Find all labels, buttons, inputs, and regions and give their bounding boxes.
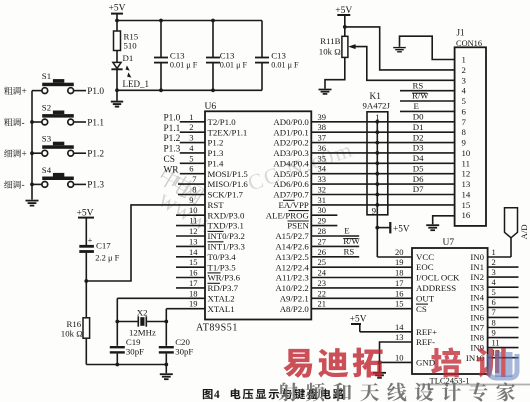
svg-text:P1.0: P1.0 bbox=[164, 113, 181, 123]
svg-text:D4: D4 bbox=[413, 153, 424, 163]
wire U7 IN2 (pin 3) bbox=[488, 267, 519, 277]
wire U6 pin 14 bbox=[176, 247, 205, 257]
caption 图4 bbox=[203, 389, 213, 399]
wire U6 pin 11 bbox=[176, 216, 205, 226]
svg-text:CS: CS bbox=[416, 304, 427, 314]
wire D4 bus: U6 pin 35 to J1 pin 11 bbox=[311, 153, 454, 165]
svg-text:XTAL2: XTAL2 bbox=[208, 293, 235, 303]
svg-text:T1/P3.5: T1/P3.5 bbox=[208, 262, 237, 272]
svg-text:18: 18 bbox=[395, 268, 404, 278]
svg-text:4: 4 bbox=[214, 389, 220, 401]
svg-text:13: 13 bbox=[189, 236, 198, 246]
svg-text:WR: WR bbox=[164, 165, 180, 175]
svg-text:AD2/P0.2: AD2/P0.2 bbox=[273, 138, 308, 148]
svg-text:RST: RST bbox=[208, 200, 225, 210]
capacitor C17 2.2uF (electrolytic) bbox=[79, 235, 119, 281]
power +5V (top-left) bbox=[109, 4, 126, 21]
svg-text:15: 15 bbox=[462, 200, 471, 210]
svg-text:D2: D2 bbox=[413, 132, 424, 142]
wire U6 pin 9 RST to C17/R16 node bbox=[86, 195, 205, 281]
connector J1 CON16 bbox=[455, 28, 486, 226]
svg-text:A11/P2.3: A11/P2.3 bbox=[276, 273, 310, 283]
potentiometer R11B 10k bbox=[319, 36, 348, 57]
capacitor C19 30pF bbox=[110, 337, 144, 364]
wire U6 pin 10 bbox=[176, 205, 205, 215]
wire D3 bus: U6 pin 36 to J1 pin 10 bbox=[311, 143, 454, 155]
svg-text:EOC: EOC bbox=[416, 262, 434, 272]
wire U6 pin 19 XTAL1 bbox=[166, 299, 205, 309]
svg-text:26: 26 bbox=[318, 247, 327, 257]
svg-text:P1.3: P1.3 bbox=[208, 148, 224, 158]
svg-text:16: 16 bbox=[189, 268, 198, 278]
svg-text:REF+: REF+ bbox=[416, 327, 437, 337]
svg-text:RS: RS bbox=[413, 80, 424, 90]
ground (switch bus) bbox=[26, 201, 39, 206]
wire J1 pin 3 to R11B wiper bbox=[348, 44, 454, 80]
svg-text:R/W: R/W bbox=[412, 91, 429, 101]
svg-text:+: + bbox=[22, 150, 27, 160]
power +5V (K1 common) bbox=[375, 222, 409, 234]
svg-text:X2: X2 bbox=[137, 307, 148, 317]
wire U6 pin 18 XTAL2 bbox=[117, 288, 205, 298]
svg-text:TXD/P3.1: TXD/P3.1 bbox=[208, 221, 244, 231]
svg-text:14: 14 bbox=[189, 247, 198, 257]
svg-text:7: 7 bbox=[462, 117, 467, 127]
svg-text:8: 8 bbox=[492, 317, 496, 327]
svg-text:INT0/P3.2: INT0/P3.2 bbox=[208, 231, 245, 241]
op-amp/mcu U6 AT89S51 box bbox=[196, 102, 311, 334]
wire J1 pin 6 (E) bbox=[400, 101, 455, 111]
wire XTAL2 branch bbox=[115, 298, 119, 346]
wire U6 pin 12 bbox=[176, 226, 205, 236]
wire crystal ground bus bbox=[86, 363, 168, 367]
wire U6 pin 13 bbox=[176, 236, 205, 246]
svg-text:IN3: IN3 bbox=[470, 282, 484, 292]
svg-text:7: 7 bbox=[192, 174, 196, 184]
svg-text:3: 3 bbox=[492, 267, 496, 277]
capacitor C20 30pF bbox=[159, 337, 194, 364]
svg-text:AT89S51: AT89S51 bbox=[196, 323, 238, 334]
wire switch bus bbox=[30, 91, 34, 200]
svg-text:AD6/P0.6: AD6/P0.6 bbox=[273, 179, 309, 189]
svg-text:D1: D1 bbox=[123, 53, 134, 63]
svg-text:IN8: IN8 bbox=[470, 333, 484, 343]
svg-text:RXD/P3.0: RXD/P3.0 bbox=[208, 210, 246, 220]
svg-text:9: 9 bbox=[462, 138, 467, 148]
svg-text:32: 32 bbox=[318, 185, 327, 195]
capacitor C13 #3 bbox=[255, 21, 299, 91]
svg-text:6: 6 bbox=[462, 106, 467, 116]
capacitor C13 #1 bbox=[154, 21, 198, 91]
wire U7 pin 13 REF- bbox=[380, 332, 413, 362]
svg-text:21: 21 bbox=[318, 299, 327, 309]
svg-text:P1.3: P1.3 bbox=[164, 145, 181, 155]
svg-text:+5V: +5V bbox=[109, 4, 126, 14]
svg-text:S3: S3 bbox=[42, 134, 52, 144]
svg-text:D1: D1 bbox=[413, 122, 424, 132]
svg-text:AD4/P0.4: AD4/P0.4 bbox=[273, 158, 309, 168]
svg-text:1: 1 bbox=[462, 55, 466, 65]
svg-text:ALE/PROG: ALE/PROG bbox=[266, 210, 310, 220]
wire U7 IN0 (pin 1) bbox=[488, 247, 511, 257]
svg-text:10k Ω: 10k Ω bbox=[61, 329, 83, 339]
U6 inner pin names bbox=[208, 117, 310, 314]
wire U6 pin 21 to U7 pin 15 bbox=[311, 299, 412, 309]
svg-text:19: 19 bbox=[189, 299, 198, 309]
wire U6 pin 25 to U7 pin 19 bbox=[311, 257, 412, 267]
wire U7 pin 14 REF+ bbox=[360, 322, 412, 332]
svg-text:R11B: R11B bbox=[320, 36, 340, 46]
svg-text:9: 9 bbox=[372, 205, 377, 215]
svg-text:I/OCL OCK: I/OCL OCK bbox=[416, 273, 460, 283]
svg-text:IN0: IN0 bbox=[470, 252, 484, 262]
svg-text:P1.0: P1.0 bbox=[87, 87, 104, 97]
svg-text:5: 5 bbox=[492, 287, 496, 297]
svg-text:6: 6 bbox=[189, 164, 193, 174]
svg-text:14: 14 bbox=[395, 322, 404, 332]
watermark diagonal 中电网 bbox=[155, 136, 357, 237]
wire D1 bus: U6 pin 38 to J1 pin 8 bbox=[311, 122, 454, 134]
wire U6 pin 16 bbox=[176, 268, 205, 278]
svg-text:IN2: IN2 bbox=[470, 272, 484, 282]
svg-text:REF-: REF- bbox=[416, 337, 435, 347]
svg-text:MOSI/P1.5: MOSI/P1.5 bbox=[208, 169, 249, 179]
svg-text:28: 28 bbox=[318, 226, 327, 236]
svg-text:16: 16 bbox=[462, 210, 471, 220]
wire U7 IN6 (pin 7) bbox=[488, 307, 519, 317]
wire U6 pin 29 stub bbox=[311, 216, 337, 226]
wire U6 pin 3 (P1.2) bbox=[164, 133, 206, 145]
svg-text:25: 25 bbox=[318, 257, 327, 267]
svg-text:A15/P2.7: A15/P2.7 bbox=[275, 231, 309, 241]
svg-text:+: + bbox=[88, 235, 93, 245]
wire U6 pin 17 bbox=[176, 278, 205, 288]
wire D7 bus: U6 pin 32 to J1 pin 14 bbox=[311, 184, 454, 196]
svg-text:30pF: 30pF bbox=[126, 346, 144, 356]
svg-text:11: 11 bbox=[462, 158, 470, 168]
svg-text:D6: D6 bbox=[413, 174, 424, 184]
svg-text:13: 13 bbox=[462, 179, 471, 189]
node RST junction bbox=[84, 279, 88, 283]
svg-text:8: 8 bbox=[192, 185, 196, 195]
svg-text:7: 7 bbox=[492, 307, 496, 317]
wire U7 IN4 (pin 5) bbox=[488, 287, 519, 297]
svg-text:SCK/P1.7: SCK/P1.7 bbox=[208, 190, 244, 200]
svg-text:IN7: IN7 bbox=[470, 323, 484, 333]
wire U7 pin 10 GND bbox=[378, 352, 412, 364]
wire U7 IN9 (pin 11) bbox=[488, 337, 519, 347]
LED D1 bbox=[111, 53, 149, 91]
svg-text:36: 36 bbox=[318, 143, 327, 153]
svg-text:35: 35 bbox=[318, 153, 327, 163]
switch S4 (细调-) bbox=[4, 165, 104, 191]
svg-text:33: 33 bbox=[318, 174, 327, 184]
U7 inner pin names (left) bbox=[416, 252, 460, 367]
svg-text:6: 6 bbox=[492, 297, 496, 307]
svg-text:J1: J1 bbox=[457, 28, 465, 38]
svg-text:9: 9 bbox=[492, 327, 496, 337]
svg-text:A12/P2.4: A12/P2.4 bbox=[275, 262, 309, 272]
capacitor C13 #2 bbox=[206, 21, 248, 91]
svg-text:9A472J: 9A472J bbox=[363, 101, 391, 111]
wire U6 pin 5 (CS) bbox=[164, 153, 206, 165]
svg-text:0.01 μ F: 0.01 μ F bbox=[271, 61, 299, 70]
wire U7 IN10 (pin 12) bbox=[488, 348, 519, 358]
ground (U7) bbox=[373, 362, 386, 377]
resistor R16 10k bbox=[61, 281, 90, 365]
svg-text:AD5/P0.5: AD5/P0.5 bbox=[273, 169, 309, 179]
svg-text:2.2 μ F: 2.2 μ F bbox=[95, 252, 119, 262]
svg-text:D0: D0 bbox=[413, 112, 424, 122]
svg-text:12: 12 bbox=[462, 169, 471, 179]
svg-text:15: 15 bbox=[189, 257, 198, 267]
switch S1 (粗调+) bbox=[4, 71, 104, 97]
svg-text:C13: C13 bbox=[220, 50, 235, 60]
wire U6 pin 2 (P1.1) bbox=[164, 122, 206, 134]
svg-text:11: 11 bbox=[492, 337, 500, 347]
ADC U7 TLC2453-1 box bbox=[412, 238, 488, 385]
svg-text:AD1/P0.1: AD1/P0.1 bbox=[273, 127, 308, 137]
svg-text:A8/P2.0: A8/P2.0 bbox=[280, 304, 310, 314]
svg-text:-: - bbox=[22, 181, 25, 191]
svg-text:PSEN: PSEN bbox=[287, 221, 309, 231]
svg-text:XTAL1: XTAL1 bbox=[208, 304, 235, 314]
svg-text:INT1/P3.3: INT1/P3.3 bbox=[208, 242, 246, 252]
svg-text:10: 10 bbox=[189, 205, 198, 215]
svg-text:P1.2: P1.2 bbox=[164, 134, 181, 144]
power +5V (C17 top) bbox=[77, 208, 95, 245]
svg-text:EA/VPP: EA/VPP bbox=[278, 200, 308, 210]
svg-text:VCC: VCC bbox=[416, 252, 434, 262]
watermark red logo 易迪拓培训 bbox=[283, 347, 530, 385]
svg-text:IN4: IN4 bbox=[470, 292, 484, 302]
svg-text:12: 12 bbox=[189, 226, 198, 236]
svg-text:AD7/P0.7: AD7/P0.7 bbox=[273, 190, 309, 200]
svg-text:34: 34 bbox=[318, 164, 327, 174]
svg-text:C13: C13 bbox=[170, 50, 185, 60]
U7 inner pin names (right IN0-IN10) bbox=[466, 252, 485, 363]
svg-text:11: 11 bbox=[189, 216, 197, 226]
svg-text:P1.1: P1.1 bbox=[164, 124, 181, 134]
svg-text:1: 1 bbox=[189, 112, 193, 122]
ground (under LED) bbox=[111, 90, 123, 106]
svg-text:D7: D7 bbox=[413, 184, 424, 194]
svg-text:CS: CS bbox=[164, 155, 175, 165]
wire D5 bus: U6 pin 34 to J1 pin 12 bbox=[311, 163, 454, 175]
svg-text:RS: RS bbox=[344, 247, 355, 257]
wire J1 pin 1 to ground bbox=[393, 36, 454, 59]
wire U6 pin 8 bbox=[178, 185, 205, 195]
wire U6 pin 1 (P1.0) bbox=[164, 112, 206, 124]
wire J1 pin 16 to ground bbox=[426, 216, 454, 230]
wire D6 bus: U6 pin 33 to J1 pin 13 bbox=[311, 174, 454, 186]
wire U7 IN8 (pin 9) bbox=[488, 327, 519, 337]
svg-text:C17: C17 bbox=[96, 240, 111, 250]
wire J1 pin 4 (RS) bbox=[400, 80, 455, 90]
svg-text:AD0/P0.0: AD0/P0.0 bbox=[273, 117, 309, 127]
svg-text:T2/P1.0: T2/P1.0 bbox=[208, 117, 237, 127]
svg-text:5: 5 bbox=[189, 153, 193, 163]
svg-text:17: 17 bbox=[189, 278, 198, 288]
svg-text:10: 10 bbox=[462, 148, 471, 158]
svg-text:4: 4 bbox=[462, 86, 467, 96]
ground (crystal) bbox=[160, 365, 173, 380]
wire U6 pin 30 stub bbox=[311, 205, 337, 215]
svg-text:29: 29 bbox=[318, 216, 327, 226]
svg-text:P1.1: P1.1 bbox=[87, 118, 104, 128]
svg-text:U7: U7 bbox=[443, 238, 455, 248]
wire D2 bus: U6 pin 37 to J1 pin 9 bbox=[311, 132, 454, 144]
svg-text:A/D: A/D bbox=[519, 224, 529, 239]
svg-text:R16: R16 bbox=[67, 319, 82, 329]
svg-text:T0/P3.4: T0/P3.4 bbox=[208, 252, 237, 262]
svg-text:0.01 μ F: 0.01 μ F bbox=[170, 61, 198, 70]
svg-text:IN5: IN5 bbox=[470, 303, 484, 313]
wire U6 pin 4 (P1.3) bbox=[164, 143, 206, 155]
svg-text:LED_1: LED_1 bbox=[123, 79, 150, 89]
svg-text:37: 37 bbox=[318, 133, 327, 143]
svg-text:C13: C13 bbox=[271, 50, 286, 60]
switch S3 (细调+) bbox=[4, 134, 104, 160]
svg-text:15: 15 bbox=[395, 299, 404, 309]
svg-text:19: 19 bbox=[395, 257, 404, 267]
wire U6 pin 28 (E) bbox=[311, 226, 359, 236]
svg-text:2: 2 bbox=[462, 65, 466, 75]
svg-text:D3: D3 bbox=[413, 143, 424, 153]
svg-text:A13/P2.5: A13/P2.5 bbox=[275, 252, 309, 262]
svg-text:T2EX/P1.1: T2EX/P1.1 bbox=[208, 127, 248, 137]
wire U7 IN3 (pin 4) bbox=[488, 277, 519, 287]
svg-text:P1.2: P1.2 bbox=[208, 138, 224, 148]
svg-text:1: 1 bbox=[375, 112, 379, 122]
wire U6 pin 26 (RS) bbox=[311, 247, 359, 257]
wire R11B bottom to ground bbox=[319, 57, 345, 94]
svg-text:0.01 μ F: 0.01 μ F bbox=[220, 61, 248, 70]
svg-text:22: 22 bbox=[318, 288, 327, 298]
svg-text:AD3/P0.3: AD3/P0.3 bbox=[273, 148, 309, 158]
wire U6 pin 15 bbox=[176, 257, 205, 267]
svg-text:14: 14 bbox=[462, 190, 471, 200]
svg-text:A14/P2.6: A14/P2.6 bbox=[275, 242, 309, 252]
wire U6 pin 27 (R/W) bbox=[311, 236, 360, 246]
wire J1 pin 2 to +5V bbox=[345, 27, 455, 70]
node A/D input tag bbox=[505, 208, 530, 257]
wire bottom rail (LED/C13 ground rail) bbox=[115, 88, 262, 92]
wire U6 pin 23 to U7 pin 17 bbox=[311, 278, 412, 288]
svg-text:8: 8 bbox=[462, 127, 467, 137]
wire U6 pin 22 to U7 pin 16 bbox=[311, 288, 412, 298]
wire U7 IN5 (pin 6) bbox=[488, 297, 519, 307]
svg-text:IN1: IN1 bbox=[470, 262, 484, 272]
svg-text:A10/P2.2: A10/P2.2 bbox=[275, 283, 308, 293]
svg-text:E: E bbox=[414, 101, 419, 111]
wire U6 pin 24 to U7 pin 18 bbox=[311, 268, 412, 278]
svg-text:12MHz: 12MHz bbox=[129, 328, 156, 338]
svg-text:13: 13 bbox=[395, 332, 404, 342]
svg-text:+5V: +5V bbox=[393, 224, 410, 234]
power +5V (R11B top) bbox=[335, 6, 352, 36]
svg-text:+: + bbox=[22, 87, 27, 97]
svg-text:5: 5 bbox=[462, 96, 467, 106]
svg-text:RD/P3.7: RD/P3.7 bbox=[208, 283, 239, 293]
svg-text:17: 17 bbox=[395, 278, 404, 288]
svg-text:30pF: 30pF bbox=[175, 346, 193, 356]
svg-text:16: 16 bbox=[395, 288, 404, 298]
svg-text:P1.3: P1.3 bbox=[87, 181, 104, 191]
svg-text:IN6: IN6 bbox=[470, 313, 484, 323]
wire top rail bbox=[115, 19, 262, 23]
svg-text:510: 510 bbox=[124, 41, 138, 51]
svg-text:3: 3 bbox=[189, 133, 193, 143]
svg-text:S4: S4 bbox=[42, 165, 52, 175]
svg-text:2: 2 bbox=[492, 257, 496, 267]
svg-text:A9/P2.1: A9/P2.1 bbox=[280, 293, 309, 303]
svg-text:MISO/P1.6: MISO/P1.6 bbox=[208, 179, 249, 189]
watermark gray slogan bbox=[279, 382, 515, 401]
svg-text:U6: U6 bbox=[205, 102, 217, 112]
switch S2 (粗调-) bbox=[4, 102, 104, 128]
svg-text:10k Ω: 10k Ω bbox=[319, 46, 341, 56]
svg-text:20: 20 bbox=[395, 247, 404, 257]
svg-text:2: 2 bbox=[189, 122, 193, 132]
svg-text:S1: S1 bbox=[42, 71, 51, 81]
svg-text:R/W: R/W bbox=[343, 236, 360, 246]
crystal X2 12MHz bbox=[117, 307, 166, 337]
svg-text:31: 31 bbox=[318, 195, 327, 205]
svg-text:24: 24 bbox=[318, 268, 327, 278]
svg-text:E: E bbox=[344, 226, 349, 236]
svg-text:1: 1 bbox=[492, 247, 496, 257]
svg-text:OUT: OUT bbox=[416, 293, 435, 303]
wire U6 pin 7 bbox=[178, 174, 205, 184]
svg-text:S2: S2 bbox=[42, 102, 51, 112]
svg-text:10: 10 bbox=[395, 352, 404, 362]
svg-text:P1.2: P1.2 bbox=[87, 150, 104, 160]
svg-text:3: 3 bbox=[462, 75, 467, 85]
svg-text:27: 27 bbox=[318, 236, 327, 246]
power +5V (REF+) bbox=[350, 315, 367, 332]
svg-text:WR/P3.6: WR/P3.6 bbox=[208, 273, 241, 283]
svg-text:23: 23 bbox=[318, 278, 327, 288]
wire EA/VPP: U6 pin 31 to J1 pin 15 bbox=[311, 195, 454, 207]
svg-text:-: - bbox=[22, 118, 25, 128]
wire XTAL1 branch bbox=[164, 309, 168, 346]
svg-text:39: 39 bbox=[318, 112, 327, 122]
svg-text:ADDRESS: ADDRESS bbox=[416, 283, 456, 293]
wire U7 IN7 (pin 8) bbox=[488, 317, 519, 327]
svg-text:9: 9 bbox=[189, 195, 193, 205]
svg-text:P1.4: P1.4 bbox=[208, 158, 224, 168]
wire D0 bus: U6 pin 39 to J1 pin 7 bbox=[311, 112, 454, 124]
wire J1 pin 5 (R/W) bbox=[400, 91, 455, 101]
wire U7 IN1 (pin 2) bbox=[488, 257, 519, 267]
wire U7 pin 20 VCC (from K1 +5V line) bbox=[377, 247, 412, 257]
svg-text:18: 18 bbox=[189, 288, 198, 298]
wire U6 pin 6 (WR) bbox=[164, 164, 206, 176]
svg-text:D5: D5 bbox=[413, 163, 424, 173]
resistor network K1 9A472J bbox=[363, 92, 391, 257]
svg-text:38: 38 bbox=[318, 122, 327, 132]
svg-text:30: 30 bbox=[318, 205, 327, 215]
resistor R15 bbox=[114, 21, 139, 63]
